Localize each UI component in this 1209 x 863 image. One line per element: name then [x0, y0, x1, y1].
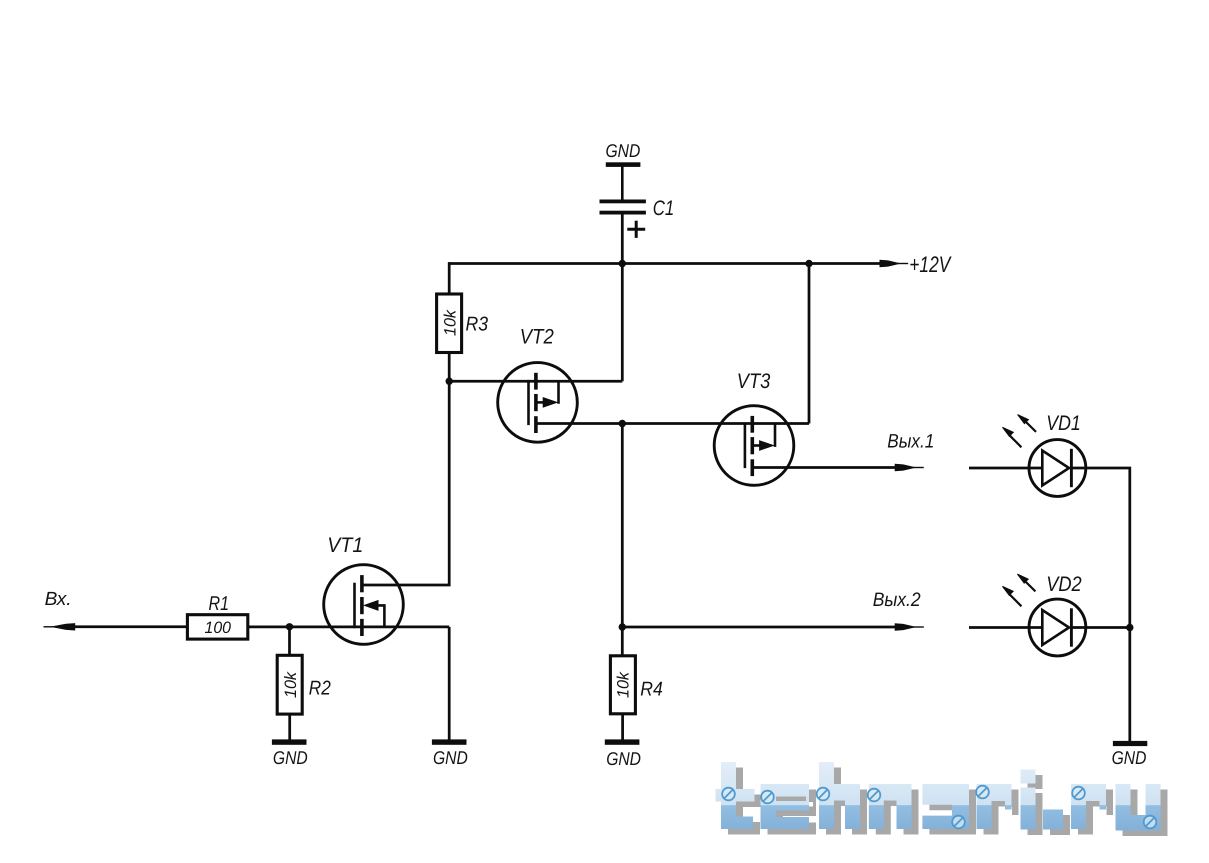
- node C1 rail junction: [619, 260, 626, 267]
- wire node R3 down to VT1 drain: [362, 381, 449, 585]
- svg-text:GND: GND: [606, 140, 641, 161]
- wire node R2 top: [288, 627, 291, 656]
- capacitor C1: [600, 200, 646, 215]
- wire node to R4 top: [621, 627, 624, 657]
- svg-text:Вых.1: Вых.1: [887, 431, 934, 453]
- wire top GND to C1: [621, 167, 624, 201]
- wire R3 bottom to node: [448, 351, 451, 381]
- wire VT3 source to Vyx1 arrow: [752, 466, 895, 469]
- wire R4 bottom to ground: [621, 713, 624, 741]
- LED VD1 light arrows: [1003, 415, 1037, 448]
- resistor R1: [187, 615, 247, 639]
- svg-text:VD1: VD1: [1046, 412, 1081, 435]
- wire +12V rail: [448, 262, 880, 265]
- svg-text:R4: R4: [640, 679, 663, 701]
- svg-text:VT3: VT3: [737, 370, 771, 393]
- ground LEDs: [1113, 741, 1147, 746]
- LED VD1: [1029, 440, 1086, 497]
- node R3 junction: [446, 378, 453, 385]
- svg-text:Вых.2: Вых.2: [873, 589, 921, 611]
- wire right vertical to ground: [1128, 628, 1131, 742]
- ground top: [606, 162, 641, 167]
- wire R2 bottom to ground: [288, 714, 291, 741]
- resistor R3: [437, 294, 462, 353]
- svg-text:Вх.: Вх.: [45, 589, 72, 610]
- svg-text:+12V: +12V: [909, 252, 952, 277]
- wire VD1 to right corner down: [1071, 468, 1129, 628]
- arrow Vyx1: [895, 464, 924, 471]
- resistor R2: [277, 655, 302, 714]
- resistor R4: [610, 656, 635, 714]
- wire R1 to VT1 gate: [247, 626, 449, 629]
- transistor VT2: [498, 363, 578, 443]
- svg-text:GND: GND: [433, 747, 468, 768]
- node R1 R2 junction: [286, 623, 293, 630]
- ground R2: [272, 739, 307, 744]
- svg-text:VT2: VT2: [520, 326, 554, 349]
- arrow input Vx: [44, 623, 76, 630]
- svg-text:GND: GND: [606, 748, 641, 769]
- svg-text:10k: 10k: [442, 309, 460, 336]
- svg-text:10k: 10k: [282, 671, 300, 698]
- wire node down toward Vyx2: [621, 424, 624, 628]
- watermark tehnari.ru shadow: [723, 768, 1168, 837]
- wire VT1 source to ground: [448, 627, 451, 741]
- transistor VT3: [714, 406, 794, 486]
- svg-text:100: 100: [205, 619, 232, 637]
- svg-text:VD2: VD2: [1046, 573, 1082, 596]
- wire Vyx2 line to LED VD2: [969, 626, 1042, 629]
- wire Vyx1 line to LED VD1: [969, 467, 1042, 470]
- svg-text:10k: 10k: [615, 671, 633, 698]
- watermark tehnari.ru logo: [716, 762, 1161, 831]
- ground R4: [605, 739, 640, 744]
- arrow Vyx2: [895, 623, 924, 630]
- wire R3 top from rail corner: [448, 262, 451, 295]
- wire VT2 source to VT3 gate: [536, 422, 809, 425]
- arrow +12V: [880, 260, 909, 267]
- svg-text:GND: GND: [273, 747, 308, 768]
- wire input to R1: [75, 625, 189, 628]
- wire Vyx2 line: [622, 626, 895, 629]
- svg-text:R2: R2: [309, 678, 331, 700]
- node VT2 source junction: [619, 420, 626, 427]
- svg-text:R1: R1: [209, 593, 230, 615]
- svg-text:VT1: VT1: [327, 534, 363, 557]
- ground VT1: [432, 739, 467, 744]
- transistor VT1: [324, 565, 404, 645]
- svg-text:C1: C1: [653, 197, 675, 220]
- LED VD2 light arrows: [1002, 574, 1035, 606]
- wire C1 to rail to VT2 drain vertical: [621, 214, 624, 381]
- LED VD2: [1029, 599, 1086, 656]
- C1 plus sign: [627, 221, 645, 238]
- node Vyx2 R4 junction: [619, 623, 626, 630]
- svg-text:GND: GND: [1112, 747, 1147, 768]
- wire node R3 to VT2 gate: [449, 380, 622, 383]
- svg-text:R3: R3: [466, 313, 489, 335]
- node VT3 rail junction: [805, 260, 812, 267]
- node VD2 right junction: [1126, 624, 1133, 631]
- watermark screw icons: [722, 786, 1156, 829]
- wire VT3 drain up to rail: [808, 264, 811, 424]
- wire VD2 to right vertical: [1071, 626, 1129, 629]
